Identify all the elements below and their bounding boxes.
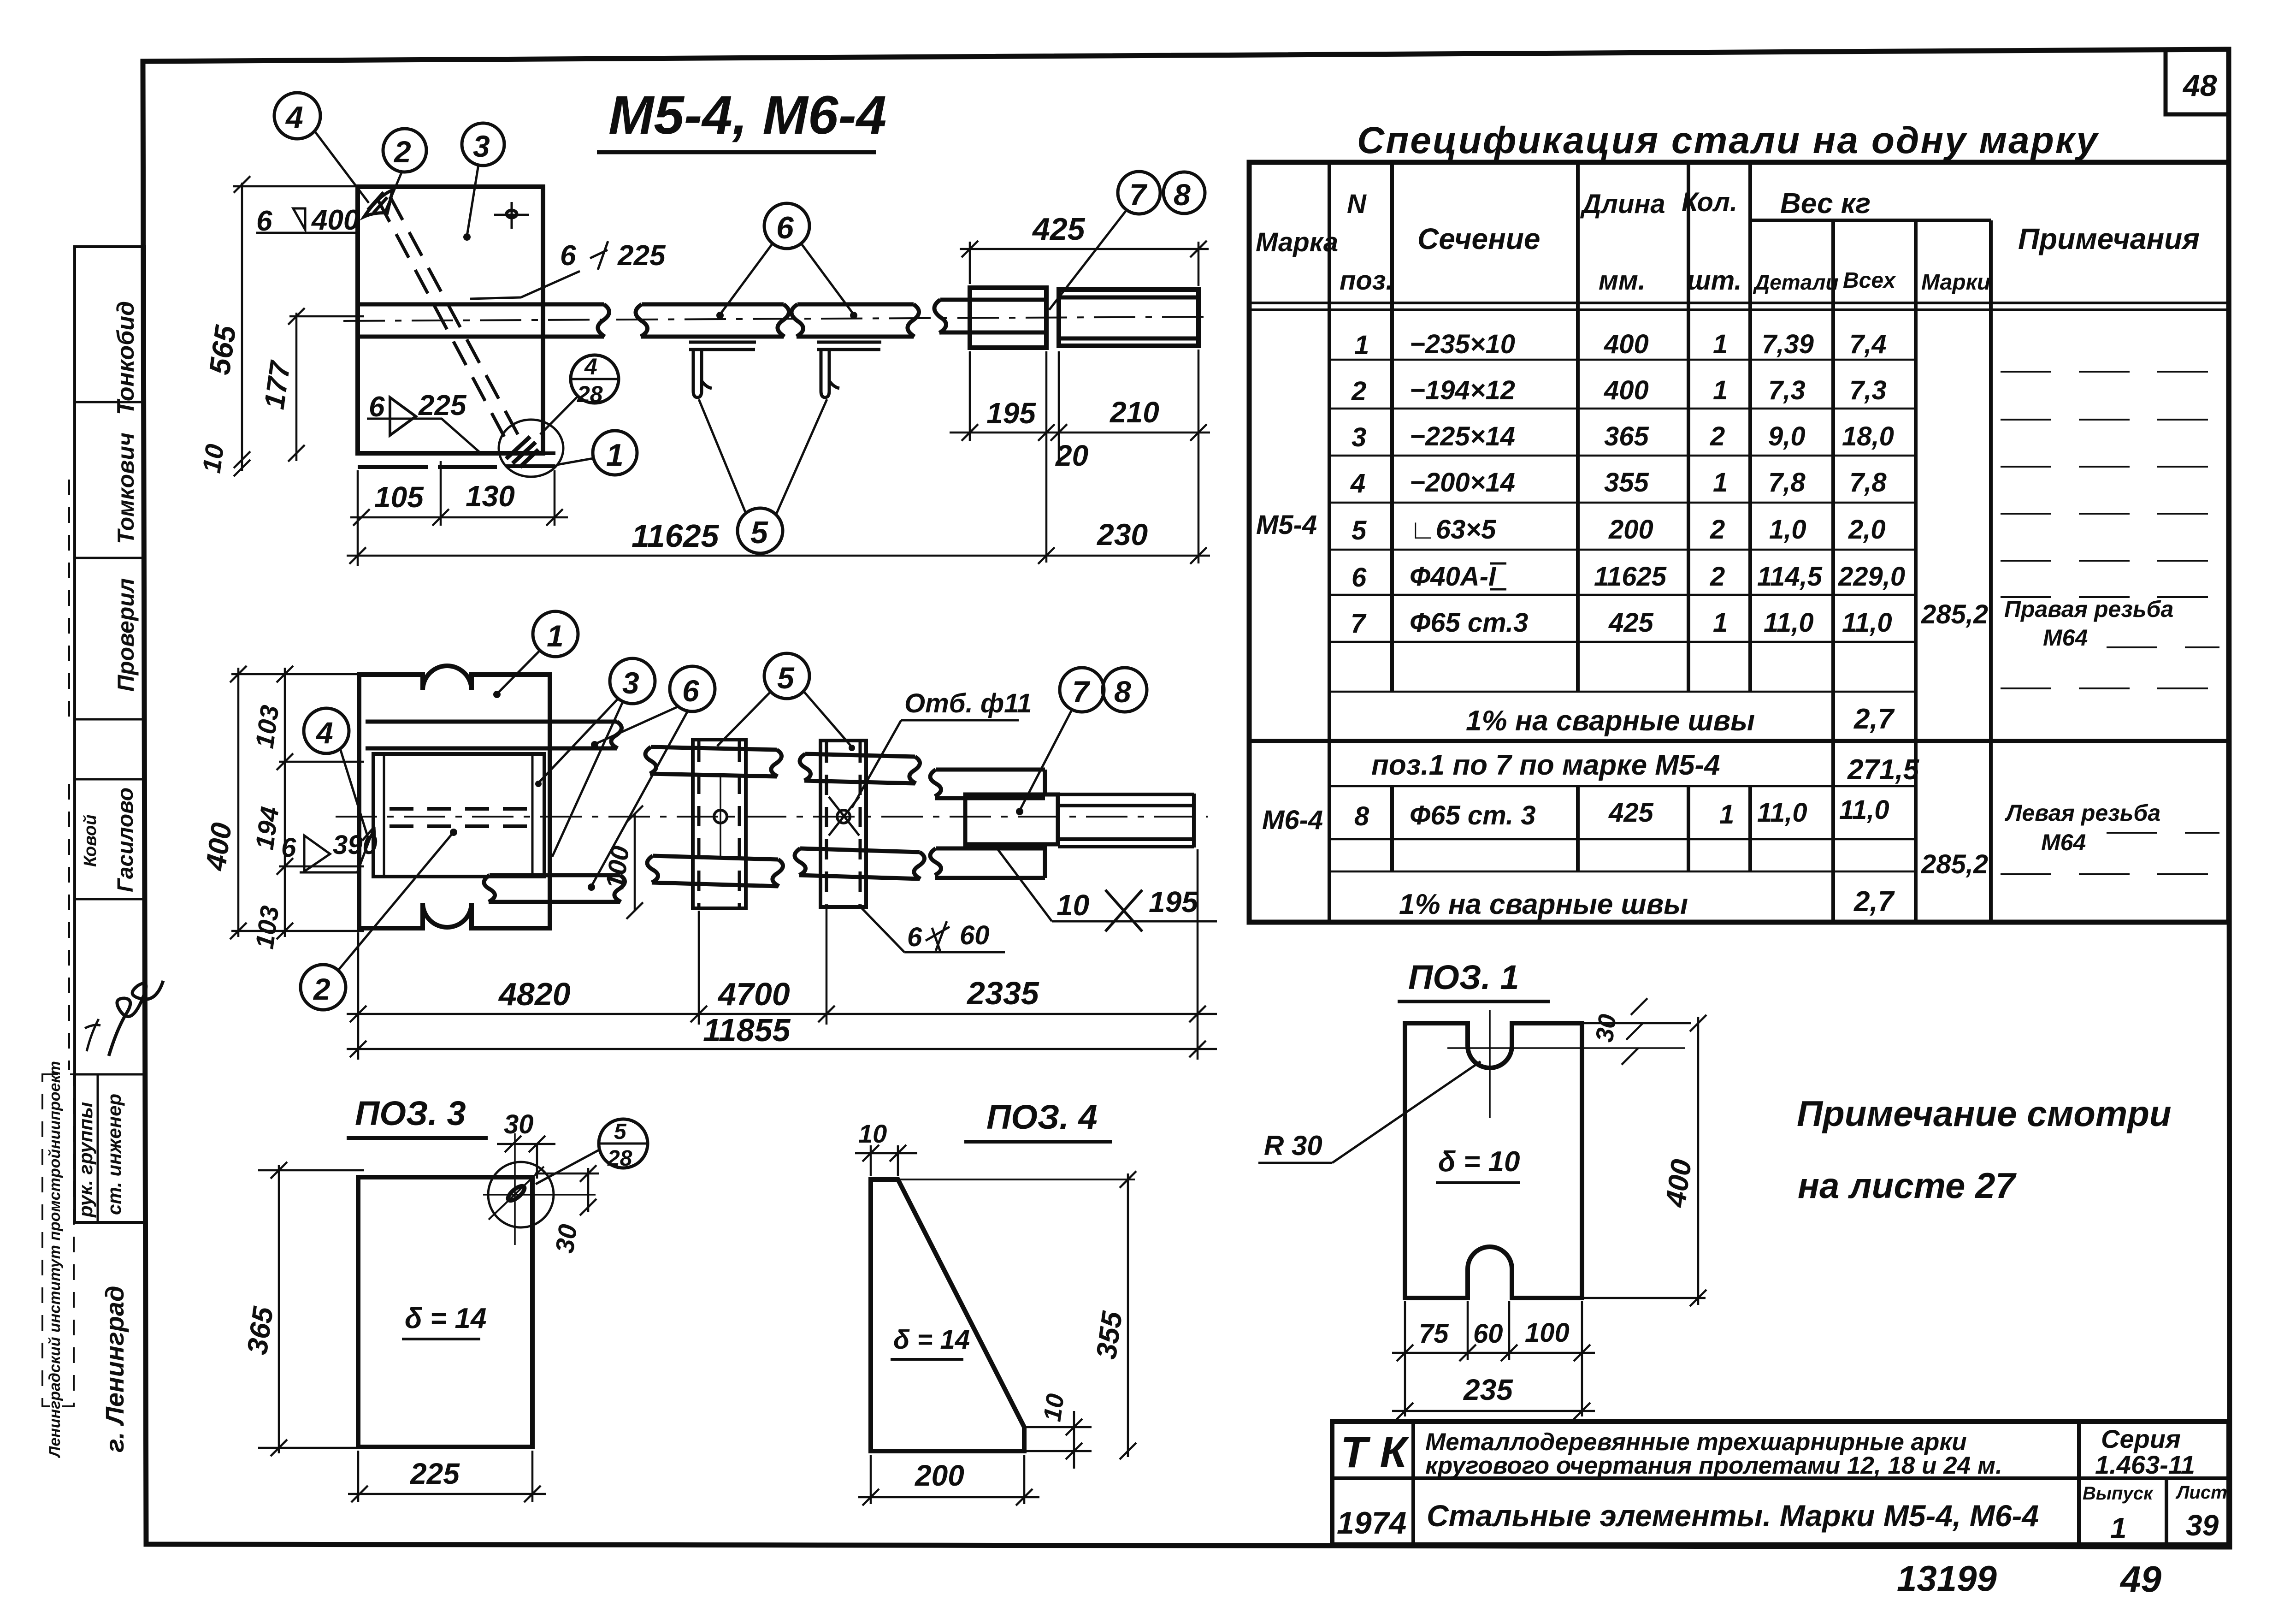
svg-text:235: 235 (1463, 1373, 1513, 1406)
svg-text:на листе 27: на листе 27 (1798, 1165, 2017, 1206)
table row 6 (1352, 562, 1905, 593)
table row 3 (1352, 421, 1894, 452)
svg-text:3: 3 (622, 666, 639, 700)
view1 weld note 6-225 upper (470, 240, 666, 299)
svg-text:200: 200 (1608, 515, 1653, 545)
view2 label circle 5 with two leaders (717, 653, 855, 751)
svg-text:Спецификация стали на одну: Спецификация стали на одну марку (1357, 119, 2099, 161)
svg-text:100: 100 (600, 844, 634, 890)
svg-text:194: 194 (249, 805, 284, 851)
svg-text:11625: 11625 (1594, 562, 1667, 592)
svg-text:7,8: 7,8 (1768, 468, 1806, 498)
svg-text:1: 1 (2110, 1511, 2127, 1545)
svg-text:7,3: 7,3 (1849, 375, 1887, 405)
svg-text:30: 30 (549, 1222, 582, 1255)
view1 detail circle at corner (499, 420, 563, 477)
svg-text:75: 75 (1419, 1319, 1449, 1349)
view1 dim 195 and 210 under coupler (950, 350, 1210, 563)
view2 left dims 103 194 103 (249, 666, 364, 951)
table row 7 (1351, 608, 1892, 639)
view2 weld note 10-195 (996, 847, 1217, 931)
view1 coupler joint gap 20 (1057, 288, 1061, 348)
svg-text:−194×12: −194×12 (1410, 375, 1515, 405)
svg-text:11,0: 11,0 (1764, 608, 1814, 638)
detail поз4 thickness note δ=14 (891, 1325, 970, 1359)
title block inner lines (1332, 1422, 2229, 1545)
svg-text:100: 100 (1525, 1318, 1570, 1348)
view1 label circle 4 (274, 93, 369, 203)
view1 rod поз6 upper lines crossing plate (359, 304, 609, 337)
svg-text:Марки: Марки (1921, 270, 1990, 295)
view1 dim 425 over coupler (960, 212, 1209, 286)
view2 weld flag 6-390 (281, 827, 378, 872)
svg-text:2: 2 (393, 135, 411, 169)
detail поз1 radius note R30 (1258, 1061, 1481, 1163)
svg-text:М64: М64 (2041, 830, 2086, 855)
svg-text:4: 4 (315, 716, 333, 750)
stamp signature squiggle (109, 981, 163, 1056)
table note левая резьба М64 (2005, 800, 2160, 855)
detail поз3 dim 30 right rotated (535, 1165, 599, 1255)
svg-text:30: 30 (1590, 1013, 1622, 1044)
svg-text:565: 565 (203, 323, 242, 377)
view1 threaded rod right part поз8 (1059, 290, 1198, 346)
stamp strip outer box (75, 247, 145, 1222)
svg-text:11625: 11625 (632, 518, 720, 554)
view1 label circle 1 (557, 431, 637, 475)
detail поз3 plate rectangle (358, 1177, 532, 1447)
title block выпуск 1 (2083, 1483, 2154, 1545)
svg-text:1% на сварные швы: 1% на сварные швы (1399, 889, 1688, 920)
svg-text:400: 400 (1604, 329, 1649, 359)
svg-text:Томкович: Томкович (113, 433, 139, 544)
svg-text:R 30: R 30 (1264, 1130, 1322, 1161)
detail поз4 top extension line (898, 1179, 1135, 1180)
svg-text:4820: 4820 (498, 976, 571, 1012)
view1 plate поз3 (square gusset) (358, 187, 543, 453)
view2 coupler assembly upper rod stub (930, 770, 1045, 798)
svg-text:М64: М64 (2043, 625, 2088, 651)
svg-text:Сечение: Сечение (1417, 222, 1540, 255)
svg-text:Гасилово: Гасилово (113, 788, 138, 892)
svg-text:рук. группы: рук. группы (75, 1102, 96, 1218)
svg-text:М5-4: М5-4 (1256, 510, 1317, 540)
svg-text:10: 10 (858, 1119, 887, 1148)
view1 label circle 3 (462, 123, 504, 241)
svg-text:Левая резьба: Левая резьба (2005, 800, 2160, 826)
svg-text:4: 4 (584, 354, 597, 379)
svg-text:1,0: 1,0 (1769, 515, 1806, 545)
svg-text:Ф65 ст. 3: Ф65 ст. 3 (1410, 800, 1535, 830)
svg-text:103: 103 (249, 904, 284, 950)
view2 lower rod поз6 (484, 875, 625, 902)
view2 weld note 6-60 (858, 905, 1005, 952)
svg-text:Серия: Серия (2101, 1424, 2181, 1453)
svg-text:Всех: Всех (1843, 268, 1896, 293)
svg-text:2: 2 (1710, 562, 1725, 592)
detail поз1 thickness note δ=10 (1436, 1146, 1520, 1183)
title block outer box (1332, 1422, 2229, 1545)
table row 1 (1354, 329, 1887, 360)
svg-text:39: 39 (2186, 1509, 2219, 1542)
svg-text:кругового очертания пролетам: кругового очертания пролетами 12, 18 и 2… (1425, 1452, 2002, 1479)
svg-text:400: 400 (311, 204, 359, 236)
svg-text:3: 3 (473, 129, 490, 163)
svg-text:177: 177 (259, 358, 297, 411)
view2 label circle 2 (301, 829, 457, 1010)
detail поз3 dim 30 top (497, 1109, 555, 1179)
svg-text:6: 6 (682, 674, 700, 708)
view1 label circle 2 (383, 129, 426, 211)
svg-text:2,7: 2,7 (1853, 703, 1895, 735)
svg-text:6: 6 (560, 240, 576, 272)
svg-text:ПОЗ. 3: ПОЗ. 3 (355, 1094, 466, 1132)
svg-text:Стальные элементы. Марки М5-: Стальные элементы. Марки М5-4, М6-4 (1427, 1499, 2039, 1533)
svg-text:Детали: Детали (1753, 270, 1839, 294)
svg-text:N: N (1347, 189, 1367, 219)
view1 inner dim 177 (259, 308, 364, 462)
view1 centerline axis (343, 317, 1208, 321)
svg-text:1: 1 (1713, 375, 1728, 405)
detail поз4 plate shape (871, 1179, 1024, 1451)
svg-text:225: 225 (617, 240, 666, 272)
table row 8 (1354, 795, 1889, 831)
svg-text:Выпуск: Выпуск (2083, 1483, 2154, 1504)
table section divider М5-4/М6-4 (1249, 739, 2229, 743)
svg-text:11,0: 11,0 (1842, 608, 1892, 638)
view1 weld seam mark at plate top-left corner (364, 190, 393, 217)
svg-text:5: 5 (614, 1120, 627, 1144)
svg-text:9,0: 9,0 (1768, 421, 1806, 451)
svg-text:Отб. ф11: Отб. ф11 (904, 688, 1032, 718)
table note правая резьба М64 (2004, 596, 2173, 651)
view1 label circles 7 and 8 (1049, 172, 1205, 310)
table header texts (1256, 187, 2200, 296)
svg-text:18,0: 18,0 (1842, 421, 1894, 451)
view1 coupler sleeve left part поз7 (970, 288, 1046, 348)
svg-text:49: 49 (2119, 1559, 2161, 1600)
svg-text:δ = 14: δ = 14 (893, 1325, 970, 1355)
svg-text:1: 1 (547, 619, 564, 653)
svg-text:11,0: 11,0 (1839, 795, 1889, 825)
detail поз3 label circle 5/28 (536, 1119, 648, 1184)
table row 6 roman numeral bars (1490, 563, 1506, 589)
svg-text:28: 28 (607, 1146, 632, 1171)
svg-text:285,2: 285,2 (1921, 849, 1988, 879)
table row 5 (1352, 515, 1886, 545)
svg-text:Правая резьба: Правая резьба (2004, 596, 2173, 622)
detail поз4 title (964, 1098, 1112, 1142)
svg-text:400: 400 (200, 821, 238, 873)
svg-text:355: 355 (1091, 1309, 1129, 1361)
svg-text:285,2: 285,2 (1921, 599, 1988, 629)
table outer border (1249, 162, 2229, 922)
view1 angle bracket поз5 second (817, 342, 881, 397)
svg-text:6: 6 (907, 922, 922, 952)
svg-text:200: 200 (915, 1459, 964, 1492)
view2 threaded rod right (1058, 794, 1194, 847)
detail поз4 dim 355 right (1091, 1171, 1136, 1459)
svg-text:2: 2 (1351, 376, 1366, 406)
svg-text:−200×14: −200×14 (1410, 468, 1515, 498)
svg-text:2335: 2335 (966, 975, 1039, 1011)
view2 hole note Отб. ф11 (852, 688, 1032, 808)
svg-text:δ = 10: δ = 10 (1438, 1146, 1520, 1178)
svg-text:−235×10: −235×10 (1410, 329, 1515, 359)
svg-text:М6-4: М6-4 (1262, 805, 1323, 835)
svg-text:2: 2 (1710, 515, 1725, 545)
svg-text:20: 20 (1055, 439, 1088, 472)
svg-text:Тонкобид: Тонкобид (112, 301, 139, 415)
svg-text:355: 355 (1604, 468, 1649, 498)
table примечания dashed row lines (2001, 372, 2219, 874)
svg-text:7: 7 (1072, 675, 1091, 709)
svg-text:365: 365 (1604, 421, 1649, 451)
svg-text:Лист: Лист (2175, 1482, 2227, 1503)
svg-text:425: 425 (1608, 798, 1654, 828)
svg-text:8: 8 (1354, 801, 1369, 831)
svg-text:7,39: 7,39 (1762, 329, 1814, 359)
svg-text:225: 225 (418, 390, 467, 421)
table row поз.1 по 7 по марке М5-4 (1371, 749, 1920, 786)
svg-text:225: 225 (410, 1457, 460, 1490)
svg-text:195: 195 (1149, 885, 1198, 919)
svg-text:11855: 11855 (703, 1012, 791, 1048)
svg-text:ПОЗ. 4: ПОЗ. 4 (986, 1098, 1098, 1136)
detail поз1 slot centerlines (1447, 1010, 1685, 1118)
svg-text:шт.: шт. (1687, 266, 1742, 296)
svg-text:1.463-11: 1.463-11 (2095, 1450, 2195, 1479)
svg-text:60: 60 (1473, 1319, 1503, 1349)
view1 label circle 4/28 (540, 354, 619, 434)
view1 bottom dim 11625 and 230 (347, 470, 1210, 566)
view2 upper rod поз6 (366, 722, 622, 748)
view1 rod stub entering coupler (934, 300, 1046, 333)
svg-text:мм.: мм. (1599, 266, 1646, 296)
svg-text:Проверил: Проверил (113, 578, 139, 692)
detail поз1 title (1398, 958, 1550, 1001)
svg-text:6: 6 (776, 210, 794, 245)
view2 label circles 7 8 (1016, 668, 1147, 815)
detail поз3 hole with detail circle (483, 1133, 596, 1245)
view1 dim 105 130 (350, 461, 568, 526)
view2 bottom dim 11855 (347, 1012, 1217, 1057)
view1 angle bracket поз5 first (689, 342, 756, 397)
svg-text:2: 2 (313, 972, 331, 1006)
svg-text:271,5: 271,5 (1847, 754, 1920, 786)
view2 label circle 6 with two leaders (588, 666, 715, 891)
detail поз1 dims 75 60 100 (1392, 1301, 1595, 1416)
svg-text:114,5: 114,5 (1757, 562, 1823, 592)
svg-text:Примечания: Примечания (2018, 222, 2200, 255)
svg-text:425: 425 (1608, 608, 1654, 638)
svg-text:28: 28 (577, 381, 603, 407)
detail поз1 dim 235 (1392, 1373, 1595, 1419)
view1 left dim 565 (203, 176, 362, 476)
svg-text:г. Ленинград: г. Ленинград (100, 1286, 129, 1452)
svg-text:7: 7 (1129, 178, 1148, 212)
svg-text:2,7: 2,7 (1853, 886, 1895, 918)
svg-text:229,0: 229,0 (1838, 562, 1905, 592)
svg-text:425: 425 (1032, 212, 1086, 247)
svg-text:2,0: 2,0 (1848, 515, 1886, 545)
title block серия 1.463-11 (2095, 1424, 2195, 1479)
svg-text:103: 103 (249, 703, 284, 750)
view1 label circle 6 with two leaders (716, 203, 857, 319)
svg-text:210: 210 (1110, 396, 1159, 429)
stamp strip dashed hints (42, 480, 74, 1406)
svg-text:7,3: 7,3 (1768, 375, 1806, 405)
drawing title М5-4, М6-4 (597, 85, 886, 152)
detail поз3 title (347, 1094, 488, 1138)
svg-text:105: 105 (374, 480, 424, 514)
detail поз1 dim 400 right (1584, 1015, 1706, 1306)
view2 label circle 1 (493, 611, 578, 698)
view1 label circle 5 with two leaders (699, 399, 827, 553)
svg-text:6: 6 (281, 833, 296, 863)
svg-text:230: 230 (1096, 517, 1148, 551)
svg-text:Марка: Марка (1256, 227, 1338, 257)
detail поз3 dim 225 bottom (348, 1451, 546, 1502)
svg-text:1: 1 (606, 438, 624, 473)
svg-text:δ = 14: δ = 14 (405, 1303, 486, 1334)
svg-text:11,0: 11,0 (1757, 798, 1807, 828)
svg-text:6: 6 (1352, 563, 1367, 593)
svg-text:5: 5 (777, 661, 795, 695)
svg-text:5: 5 (750, 515, 768, 550)
detail поз1 dim 30 top right (1584, 998, 1691, 1065)
detail поз4 dim 10 step right (1024, 1392, 1092, 1469)
svg-text:48: 48 (2182, 68, 2217, 102)
svg-text:Длина: Длина (1580, 189, 1665, 219)
view2 coupler plate body (965, 794, 1058, 844)
svg-text:Ленинградский институт промстр: Ленинградский институт промстройниипроек… (46, 1061, 64, 1458)
svg-text:7: 7 (1351, 609, 1367, 639)
detail поз3 thickness note δ=14 (402, 1303, 486, 1339)
svg-text:195: 195 (986, 397, 1036, 430)
table row 1% на сварные швы М6-4 (1399, 886, 1895, 920)
detail поз4 dim 10 top (855, 1119, 917, 1176)
table row 2 (1351, 375, 1887, 406)
table row 4 (1350, 468, 1887, 498)
view1 bottom strip поз1 edge view (358, 453, 555, 467)
svg-text:1: 1 (1354, 330, 1369, 360)
svg-text:∟63×5: ∟63×5 (1410, 515, 1496, 545)
table header double line (1249, 303, 2229, 310)
stamp strip row dividers (75, 402, 145, 1222)
view2 dim 100 vertical (600, 806, 643, 919)
svg-text:Ковой: Ковой (81, 814, 100, 867)
detail поз3 dim 365 left (242, 1162, 364, 1456)
view1 weld flag 6-400 (256, 204, 359, 237)
svg-text:8: 8 (1114, 675, 1131, 709)
svg-text:4: 4 (285, 100, 303, 135)
view2 label circle 3 with two leaders (535, 658, 655, 857)
svg-text:4700: 4700 (717, 976, 790, 1012)
view2 connector plate поз5 first (693, 740, 746, 908)
svg-text:Кол.: Кол. (1682, 187, 1737, 217)
svg-text:400: 400 (1604, 375, 1649, 405)
view2 plate поз1 front with slots (359, 666, 550, 928)
svg-text:8: 8 (1174, 178, 1191, 212)
svg-text:1: 1 (1713, 329, 1728, 359)
table column lines (1329, 162, 1991, 922)
svg-text:Ф65 ст.3: Ф65 ст.3 (1410, 608, 1528, 638)
svg-text:1: 1 (1713, 608, 1728, 638)
view1 cross mark on plate (494, 202, 529, 229)
svg-text:400: 400 (1659, 1157, 1698, 1210)
svg-text:13199: 13199 (1897, 1558, 1997, 1599)
svg-text:ст. инженер: ст. инженер (103, 1094, 125, 1215)
svg-text:7,4: 7,4 (1849, 329, 1887, 359)
svg-text:10: 10 (1038, 1392, 1069, 1423)
svg-text:30: 30 (504, 1109, 534, 1139)
view2 label circle 4 (304, 708, 369, 840)
svg-text:130: 130 (466, 480, 515, 513)
svg-text:1974: 1974 (1337, 1505, 1406, 1541)
view2 coupler assembly lower rod stub (930, 846, 1045, 878)
svg-text:60: 60 (960, 920, 990, 950)
view2 bottom dims 4820 4700 2335 (347, 849, 1217, 1060)
view2 centerline axis (336, 816, 1208, 818)
svg-text:ПОЗ. 1: ПОЗ. 1 (1408, 958, 1519, 996)
svg-text:−225×14: −225×14 (1410, 421, 1515, 451)
view1 weld note 6-225 lower with flag (367, 390, 480, 453)
svg-text:365: 365 (242, 1304, 280, 1357)
svg-text:Вес кг: Вес кг (1780, 188, 1871, 219)
svg-text:1: 1 (1713, 468, 1728, 498)
view2 rod stubs at first plate (645, 747, 783, 886)
table row 1% на сварные швы М5-4 (1466, 703, 1895, 737)
view2 connector plate поз5 second (820, 741, 866, 907)
stamp signature squiggle 2 faint (85, 1019, 100, 1051)
view2 left dim 400 (200, 666, 364, 939)
svg-text:поз.1 по 7 по марке М5-4: поз.1 по 7 по марке М5-4 (1371, 749, 1720, 781)
view2 rod stubs at second plate (795, 754, 925, 879)
page number box 48 (2166, 50, 2229, 114)
svg-text:10: 10 (1057, 889, 1089, 922)
table row lines (1329, 360, 1916, 871)
detail поз1 plate with two slots (1405, 1023, 1582, 1298)
view1 rod поз6 second segment (636, 304, 789, 337)
svg-text:2: 2 (1710, 421, 1725, 451)
view1 dashed diagonal brace lines (377, 196, 522, 445)
svg-text:1% на сварные швы: 1% на сварные швы (1466, 705, 1755, 737)
title block лист 39 (2175, 1482, 2227, 1542)
view1 rod поз6 third segment (791, 304, 919, 337)
svg-text:поз.: поз. (1340, 266, 1393, 296)
svg-text:4: 4 (1350, 468, 1365, 498)
svg-text:1: 1 (1719, 800, 1734, 830)
view1 weld seam strokes in detail circle (506, 437, 538, 467)
detail поз4 dim 200 bottom (858, 1455, 1039, 1505)
view2 inner plate поз2 seen through (373, 754, 544, 877)
svg-text:Примечание смотри: Примечание смотри (1797, 1093, 2172, 1134)
svg-text:Ф40А-I: Ф40А-I (1410, 562, 1497, 592)
svg-text:5: 5 (1352, 516, 1367, 545)
svg-text:Т К: Т К (1340, 1428, 1410, 1477)
svg-text:М5-4, М6-4: М5-4, М6-4 (608, 85, 886, 146)
note примечание смотри на листе 27 (1797, 1093, 2172, 1206)
svg-text:3: 3 (1352, 422, 1366, 452)
svg-text:7,8: 7,8 (1849, 468, 1887, 498)
svg-text:10: 10 (196, 442, 229, 474)
view1 small dim 10 at strip (196, 442, 229, 474)
